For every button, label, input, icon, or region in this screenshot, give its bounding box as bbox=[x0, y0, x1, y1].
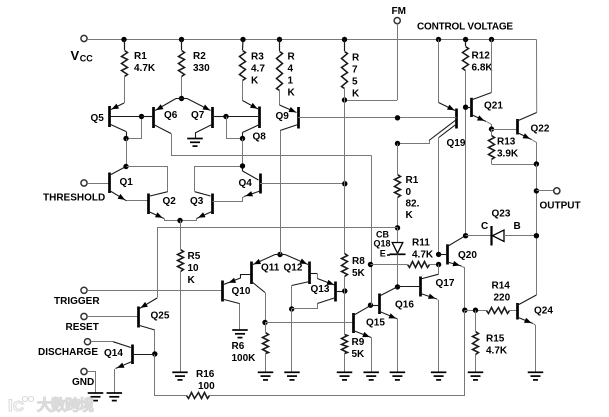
wire Q5 base tie-down bbox=[127, 117, 142, 139]
resistor R4 1K bbox=[277, 40, 283, 105]
wire Q14 emitter to ground bbox=[114, 369, 116, 393]
wire R7 column down bbox=[344, 100, 346, 254]
ground GND pin bbox=[88, 393, 104, 401]
label Q2 bbox=[163, 196, 177, 207]
svg-text:CONTROL VOLTAGE: CONTROL VOLTAGE bbox=[417, 22, 513, 33]
transistor Q11 bbox=[252, 255, 281, 293]
ground R9 bbox=[337, 372, 353, 380]
wire R10 node to diode bbox=[397, 228, 399, 243]
svg-text:R1: R1 bbox=[134, 51, 147, 62]
resistor R1 4.7K bbox=[122, 40, 128, 103]
label Q18 CB E bbox=[374, 230, 391, 259]
wire R4col end bbox=[280, 131, 282, 255]
junction Q20em-R14-bottomrail bbox=[462, 308, 467, 313]
wire R14 left bbox=[465, 310, 487, 312]
svg-text:4.7: 4.7 bbox=[251, 64, 265, 75]
junction Q11-Q12 emitters bbox=[277, 252, 282, 257]
diode Q23 (B to C) bbox=[492, 226, 537, 246]
svg-text:10: 10 bbox=[188, 263, 200, 274]
ground Q14 bbox=[107, 393, 123, 401]
label Q6 bbox=[164, 110, 178, 121]
wire Q21 emitter to R13 bbox=[487, 122, 492, 130]
transistor Q16 bbox=[371, 287, 398, 319]
svg-text:R9: R9 bbox=[352, 337, 365, 348]
junction Q23-output column bbox=[534, 233, 539, 238]
label Q20 bbox=[458, 250, 477, 261]
label Q24 bbox=[534, 306, 553, 317]
svg-text:RESET: RESET bbox=[66, 322, 99, 333]
svg-text:100K: 100K bbox=[232, 353, 257, 364]
wire GND to ground bbox=[88, 372, 96, 393]
svg-text:5: 5 bbox=[352, 77, 358, 88]
wire Q3 emitter elbow bbox=[181, 219, 197, 221]
svg-text:Q14: Q14 bbox=[104, 348, 123, 359]
wire Q9 collector down to Q11/Q12 bbox=[280, 131, 282, 255]
svg-text:82.: 82. bbox=[406, 199, 420, 210]
wire Q13 collector elbow bbox=[292, 304, 318, 309]
svg-text:4.7K: 4.7K bbox=[412, 250, 434, 261]
watermark bbox=[8, 396, 94, 415]
wire Q19 collector2 down bbox=[438, 138, 440, 255]
junction Q20col-Q23-R12 bbox=[463, 233, 468, 238]
transistor Q10 bbox=[222, 275, 252, 304]
junction Q21em-R13-Q22base bbox=[489, 126, 494, 131]
ground R15 bbox=[468, 372, 484, 380]
node GND terminal bbox=[81, 368, 87, 374]
label Q17 bbox=[436, 278, 455, 289]
junction Q11col-R6-Q15base bbox=[262, 320, 267, 325]
junction R13-Q22em bbox=[534, 161, 539, 166]
junction rail-R2 bbox=[179, 37, 184, 42]
label Q14 bbox=[104, 348, 123, 359]
label RESET bbox=[66, 322, 99, 333]
svg-text:7: 7 bbox=[352, 65, 358, 76]
node TRIGGER terminal bbox=[81, 287, 87, 293]
label R16 bbox=[196, 369, 215, 392]
wire rail corner down to Q22 collector bbox=[536, 40, 538, 113]
junction Q8 collector bbox=[240, 136, 245, 141]
resistor R10 82K bbox=[395, 144, 401, 228]
svg-text:R6: R6 bbox=[232, 341, 245, 352]
transistor Q5 bbox=[110, 103, 142, 139]
junction Q12col-Q13col bbox=[289, 306, 294, 311]
wire FM down and to R7 bottom bbox=[345, 24, 398, 101]
label Q3 bbox=[190, 196, 204, 207]
label Q25 bbox=[151, 311, 170, 322]
ground Q17 bbox=[431, 372, 447, 380]
transistor Q19 bbox=[398, 40, 457, 141]
svg-text:Q6: Q6 bbox=[164, 110, 178, 121]
label Q4 bbox=[239, 178, 253, 189]
wire bus down to Q16 base bbox=[371, 156, 373, 306]
transistor Q17 bbox=[398, 274, 439, 299]
wire Q6 collector bus bbox=[172, 134, 372, 156]
label R7 bbox=[352, 53, 360, 100]
transistor Q1 bbox=[110, 167, 127, 201]
wire output column bbox=[536, 164, 538, 295]
svg-text:220: 220 bbox=[494, 293, 511, 304]
label R8 bbox=[352, 256, 366, 279]
svg-text:R5: R5 bbox=[188, 251, 201, 262]
svg-text:R15: R15 bbox=[486, 334, 505, 345]
resistor R12 6.8K bbox=[463, 40, 469, 108]
label FM bbox=[392, 6, 406, 17]
wire R13 bottom to output column bbox=[492, 164, 537, 166]
svg-text:K: K bbox=[288, 88, 296, 99]
junction Q16col-Q17base bbox=[395, 284, 400, 289]
svg-text:Q1: Q1 bbox=[120, 177, 134, 188]
wire Q23 left bbox=[466, 235, 491, 237]
svg-text:Q15: Q15 bbox=[366, 318, 385, 329]
transistor Q4 bbox=[243, 166, 345, 197]
ground R6 bbox=[258, 372, 274, 380]
junction Q19 base bbox=[395, 115, 400, 120]
junction rail-Q19em bbox=[436, 37, 441, 42]
wire Q12/Q13 collectors to ground bbox=[291, 309, 293, 372]
wire Q17 emitter to ground bbox=[438, 300, 439, 372]
svg-text:Q17: Q17 bbox=[436, 278, 455, 289]
svg-text:Q10: Q10 bbox=[232, 286, 251, 297]
svg-text:Q24: Q24 bbox=[534, 306, 553, 317]
label R11 bbox=[412, 238, 434, 261]
svg-text:Q13: Q13 bbox=[311, 284, 330, 295]
wire Q16 emitter to ground bbox=[397, 319, 399, 372]
svg-text:100: 100 bbox=[198, 381, 215, 392]
label Q7 bbox=[191, 110, 205, 121]
label R15 bbox=[486, 334, 508, 357]
wire Q22 emitter to output column bbox=[532, 140, 537, 165]
svg-text:R3: R3 bbox=[251, 52, 264, 63]
junction rail-R12 bbox=[463, 37, 468, 42]
label R6 bbox=[232, 341, 257, 364]
label Q15 bbox=[366, 318, 385, 329]
resistor R11 4.7K bbox=[371, 262, 439, 268]
svg-text:Q9: Q9 bbox=[276, 111, 290, 122]
ground Q7 collector bbox=[187, 139, 203, 147]
junction Q20 base bbox=[436, 252, 441, 257]
transistor Q20 bbox=[439, 236, 465, 266]
transistor Q21 bbox=[466, 93, 492, 122]
resistor R5 10K bbox=[178, 221, 184, 372]
label Q19 bbox=[447, 138, 466, 149]
ground Q24 bbox=[528, 372, 544, 380]
wire Q21 collector up bbox=[491, 40, 493, 93]
svg-text:5K: 5K bbox=[352, 268, 366, 279]
label R3 bbox=[251, 52, 265, 87]
junction OUTPUT tap bbox=[534, 188, 539, 193]
wire Q17 collector up bbox=[438, 265, 440, 275]
wire diode to Q16/Q17 node bbox=[397, 254, 399, 287]
transistor Q24 bbox=[517, 295, 536, 324]
label Q22 bbox=[531, 124, 550, 135]
label Q13 bbox=[311, 284, 330, 295]
svg-text:Q8: Q8 bbox=[253, 132, 267, 143]
label R1 bbox=[134, 51, 156, 74]
label Q5 bbox=[91, 113, 105, 124]
svg-text:3.9K: 3.9K bbox=[497, 149, 519, 160]
label Q8 bbox=[253, 132, 267, 143]
label Q11 bbox=[261, 263, 280, 274]
svg-text:Q18: Q18 bbox=[374, 239, 391, 249]
junction FM-R7 bbox=[342, 97, 347, 102]
junction Q2-Q3 emitters bbox=[177, 218, 182, 223]
junction R10 bottom bbox=[395, 225, 400, 230]
resistor R2 330 bbox=[179, 40, 185, 99]
wire Q12 collector down bbox=[291, 286, 293, 310]
svg-text:R11: R11 bbox=[412, 238, 430, 249]
svg-text:R: R bbox=[288, 52, 296, 63]
transistor Q3 bbox=[195, 192, 213, 219]
wire bottom rail right bbox=[210, 311, 465, 396]
junction Q4 collector node bbox=[240, 163, 245, 168]
junction R11-Q19C2 bbox=[436, 262, 441, 267]
junction Q7-Q8 base bbox=[223, 114, 228, 119]
junction rail-R1 bbox=[121, 37, 126, 42]
svg-text:FM: FM bbox=[392, 6, 406, 17]
resistor R14 220 bbox=[487, 308, 518, 314]
svg-text:1: 1 bbox=[288, 76, 294, 87]
node THRESHOLD terminal bbox=[81, 180, 87, 186]
label Q23 bbox=[481, 209, 521, 233]
wire Q5col to Q1col bbox=[126, 139, 128, 167]
svg-text:Q7: Q7 bbox=[191, 110, 205, 121]
svg-text:4.7K: 4.7K bbox=[486, 346, 508, 357]
svg-text:Q5: Q5 bbox=[91, 113, 105, 124]
label TRIGGER bbox=[54, 296, 100, 307]
label Q10 bbox=[232, 286, 251, 297]
transistor Q15 bbox=[353, 306, 371, 338]
wire Q19 collector1 to R10 node bbox=[398, 141, 430, 144]
wire R12 column down bbox=[465, 107, 467, 236]
svg-text:R8: R8 bbox=[352, 256, 365, 267]
resistor R9 5K bbox=[342, 291, 348, 372]
svg-text:R14: R14 bbox=[492, 281, 511, 292]
wire Q12 base to Q13 emitter bbox=[317, 274, 319, 279]
junction R2 bottom bbox=[179, 96, 184, 101]
svg-text:Q16: Q16 bbox=[395, 300, 414, 311]
svg-text:Q22: Q22 bbox=[531, 124, 550, 135]
node FM terminal bbox=[394, 18, 400, 24]
svg-text:大数跨境: 大数跨境 bbox=[37, 396, 94, 414]
svg-text:Q19: Q19 bbox=[447, 138, 466, 149]
label R10 bbox=[406, 175, 420, 221]
node VCC terminal bbox=[81, 35, 87, 41]
svg-text:K: K bbox=[188, 275, 196, 286]
transistor Q7 bbox=[182, 99, 227, 139]
ground Q10 bbox=[232, 330, 248, 338]
svg-text:Q3: Q3 bbox=[190, 196, 204, 207]
wire Q11 collector down bbox=[265, 293, 267, 323]
junction R15 top bbox=[473, 308, 478, 313]
transistor Q14 bbox=[116, 345, 155, 369]
label R13 bbox=[497, 137, 519, 160]
label OUTPUT bbox=[540, 201, 581, 212]
node RESET terminal bbox=[81, 313, 87, 319]
junction Q13 base / R8-R9 bbox=[342, 288, 347, 293]
wire Q24 emitter to ground bbox=[534, 324, 536, 372]
label R9 bbox=[352, 337, 366, 360]
wire Q2 emitter elbow bbox=[165, 219, 181, 221]
node DISCHARGE terminal bbox=[84, 339, 90, 345]
svg-text:Q20: Q20 bbox=[458, 250, 477, 261]
svg-text:THRESHOLD: THRESHOLD bbox=[43, 193, 105, 204]
junction rail-Q21col bbox=[489, 37, 494, 42]
label Q9 bbox=[276, 111, 290, 122]
wire Q3col loop to Q4 node bbox=[195, 167, 243, 192]
junction rail-R7 bbox=[342, 37, 347, 42]
label Q16 bbox=[395, 300, 414, 311]
wire Q22 base line bbox=[492, 129, 518, 131]
svg-text:K: K bbox=[251, 76, 259, 87]
label R12 bbox=[472, 51, 494, 74]
svg-text:DISCHARGE: DISCHARGE bbox=[38, 347, 98, 358]
ground R5 bbox=[172, 372, 188, 380]
svg-text:4.7K: 4.7K bbox=[134, 63, 156, 74]
label Q1 bbox=[120, 177, 134, 188]
label VCC bbox=[71, 48, 94, 63]
label R2 bbox=[193, 51, 210, 74]
wire bottom rail left bbox=[155, 355, 187, 396]
wire Q1col loop to Q2col bbox=[127, 167, 168, 192]
wire RESET to Q25 base bbox=[87, 316, 138, 318]
svg-text:Q2: Q2 bbox=[163, 196, 177, 207]
svg-text:TRIGGER: TRIGGER bbox=[54, 296, 100, 307]
wire Q20 emitter down bbox=[462, 267, 465, 311]
wire OUTPUT stub bbox=[536, 190, 553, 192]
label Q21 bbox=[484, 101, 503, 112]
wire top VCC rail bbox=[87, 39, 536, 41]
junction Q15col-Q16base bbox=[368, 303, 373, 308]
junction bus-R11 bbox=[368, 262, 373, 267]
svg-text:C: C bbox=[481, 221, 488, 232]
resistor R15 4.7K bbox=[473, 310, 479, 371]
junction Q5 base bbox=[139, 114, 144, 119]
svg-text:5K: 5K bbox=[352, 349, 366, 360]
wire Q10 collector to ground bbox=[239, 304, 241, 330]
label R5 bbox=[188, 251, 201, 286]
resistor R6 100K bbox=[263, 323, 269, 372]
ground Q12-Q13 bbox=[284, 372, 300, 380]
wire Q25 collector down bbox=[154, 330, 156, 354]
transistor Q13 bbox=[317, 279, 345, 304]
junction rail-R4 bbox=[277, 37, 282, 42]
label DISCHARGE bbox=[38, 347, 98, 358]
junction rail-R3 bbox=[240, 37, 245, 42]
svg-text:Q25: Q25 bbox=[151, 311, 170, 322]
transistor Q8 bbox=[226, 101, 260, 139]
svg-text:R16: R16 bbox=[196, 369, 215, 380]
junction Q19 collector1 bbox=[395, 141, 400, 146]
svg-text:Q21: Q21 bbox=[484, 101, 503, 112]
transistor Q9 bbox=[280, 105, 398, 131]
node OUTPUT terminal bbox=[554, 188, 560, 194]
wire DISCHARGE to Q14 collector bbox=[91, 342, 131, 348]
svg-text:R: R bbox=[352, 53, 360, 64]
junction Q21 base bbox=[463, 105, 468, 110]
wire Q8 base tie-down bbox=[227, 117, 243, 139]
label THRESHOLD bbox=[43, 193, 105, 204]
svg-text:Q11: Q11 bbox=[261, 263, 280, 274]
wire THRESHOLD to Q1 bbox=[87, 183, 109, 185]
transistor Q6 bbox=[142, 99, 182, 134]
resistor R3 4.7K bbox=[240, 40, 246, 101]
wire TRIGGER to Q10 base bbox=[87, 290, 222, 292]
label GND bbox=[72, 377, 94, 388]
resistor R8 5K bbox=[342, 254, 348, 292]
label R14 bbox=[492, 281, 511, 304]
svg-text:K: K bbox=[406, 210, 414, 221]
svg-text:V: V bbox=[71, 48, 80, 63]
svg-text:CC: CC bbox=[80, 53, 93, 63]
svg-text:4: 4 bbox=[288, 64, 294, 75]
wire Q2/Q3 emitters to Q25 emitter bbox=[158, 228, 398, 298]
ground Q16 bbox=[390, 372, 406, 380]
label Q12 bbox=[284, 263, 303, 274]
svg-text:R13: R13 bbox=[497, 137, 516, 148]
resistor R16 100 bbox=[187, 393, 210, 399]
junction Q4 base / R7 column bbox=[342, 181, 347, 186]
svg-text:6.8K: 6.8K bbox=[472, 63, 494, 74]
junction Q25col-Q14base bbox=[152, 351, 157, 356]
transistor Q22 bbox=[517, 113, 537, 140]
diode Q18 (C-B to E) bbox=[390, 243, 406, 255]
wire Q1 emitter to Q2 base bbox=[127, 200, 149, 202]
transistor Q12 bbox=[280, 255, 317, 286]
wire Q15 base line bbox=[265, 322, 353, 324]
svg-text:OUTPUT: OUTPUT bbox=[540, 201, 581, 212]
svg-text:B: B bbox=[514, 221, 521, 232]
label CONTROL VOLTAGE bbox=[417, 22, 513, 33]
wire Q15 emitter to ground bbox=[371, 338, 373, 372]
svg-text:R12: R12 bbox=[472, 51, 491, 62]
junction Q1 collector bbox=[123, 164, 128, 169]
transistor Q25 bbox=[138, 298, 157, 330]
junction Q5 collector bbox=[123, 136, 128, 141]
svg-text:Q4: Q4 bbox=[239, 178, 253, 189]
resistor R7 5K bbox=[342, 40, 348, 101]
wire Q8col to Q4 node bbox=[242, 139, 244, 167]
resistor R13 3.9K bbox=[489, 129, 495, 164]
ground Q15 bbox=[363, 372, 379, 380]
svg-text:GND: GND bbox=[72, 377, 94, 388]
svg-text:R1: R1 bbox=[406, 175, 419, 186]
svg-text:K: K bbox=[352, 89, 360, 100]
label R4 bbox=[288, 52, 296, 99]
svg-text:R2: R2 bbox=[193, 51, 206, 62]
wire Q4 emitter to Q3 base bbox=[213, 197, 245, 202]
transistor Q2 bbox=[149, 192, 168, 219]
svg-text:Q12: Q12 bbox=[284, 263, 303, 274]
svg-text:Q23: Q23 bbox=[492, 209, 511, 220]
svg-text:330: 330 bbox=[193, 63, 210, 74]
svg-text:E: E bbox=[380, 249, 386, 259]
svg-text:0: 0 bbox=[406, 187, 412, 198]
